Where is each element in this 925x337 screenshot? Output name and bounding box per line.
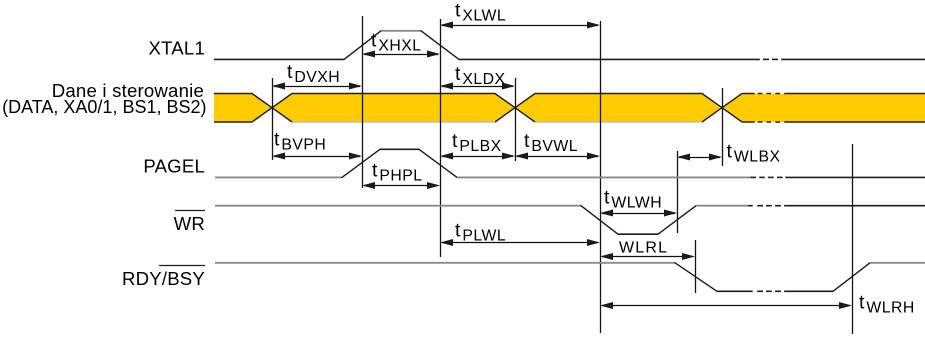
signal name WR with overline — [174, 211, 205, 234]
arrow tPLWL — [440, 239, 600, 246]
svg-text:PAGEL: PAGEL — [143, 156, 205, 177]
XTAL1 wire low right with dash break — [459, 58, 925, 60]
arrow tWLWH — [600, 210, 677, 217]
arrow tBVPH — [272, 153, 362, 160]
PAGEL falling edge — [419, 149, 457, 177]
bus outline segment 4 tapers — [722, 94, 742, 123]
svg-text:tWLBX: tWLBX — [727, 141, 781, 166]
svg-text:WLRL: WLRL — [619, 240, 668, 257]
svg-text:tBVPH: tBVPH — [274, 129, 326, 154]
svg-text:tPLBX: tPLBX — [452, 130, 502, 155]
bus bottom border solid-dash-solid — [742, 121, 925, 123]
svg-text:tWLRH: tWLRH — [859, 292, 915, 317]
bus outline segment 2 — [272, 94, 515, 123]
PAGEL rising edge — [342, 149, 380, 177]
signal name (DATA, XA0/1, BS1, BS2) — [2, 97, 206, 117]
arrow tXLWL — [440, 22, 600, 29]
arrow tWLBX — [677, 154, 722, 161]
WR wire high left — [215, 205, 581, 207]
arrow tPHPL — [362, 182, 440, 189]
label tWLBX — [727, 141, 781, 166]
XTAL1 rising edge — [344, 31, 381, 60]
guide line at x=362 — [362, 16, 364, 188]
arrow tWLRH — [600, 302, 852, 309]
arrow tDVXH — [272, 83, 362, 90]
guide line at x=600 — [600, 21, 602, 333]
label WLRL — [619, 240, 668, 257]
bus fill segment 4 — [722, 94, 925, 123]
label tXHXL — [371, 30, 422, 55]
arrow tPLBX — [440, 153, 515, 160]
guide line at x=440 — [440, 19, 442, 257]
PAGEL wire low left — [215, 176, 342, 178]
tick at x=677 — [677, 151, 679, 233]
arrow tXLDX — [440, 83, 515, 90]
svg-text:XTAL1: XTAL1 — [149, 38, 205, 59]
label tDVXH — [287, 61, 340, 86]
label tBVPH — [274, 129, 326, 154]
tick at x=515 — [515, 78, 517, 161]
signal name RDY/BSY with overline on BSY — [122, 266, 205, 290]
svg-text:RDY/BSY: RDY/BSY — [122, 268, 205, 289]
label tWLRH — [859, 292, 915, 317]
signal name XTAL1 — [149, 38, 205, 59]
svg-text:tPHPL: tPHPL — [372, 160, 423, 185]
label tBVWL — [524, 130, 578, 155]
arrow tXHXL — [362, 51, 440, 58]
bus top border solid-dash-solid — [742, 93, 925, 95]
XTAL1 falling edge — [421, 31, 459, 60]
RDY/BSY rising edge — [833, 263, 870, 292]
label tPLWL — [455, 220, 506, 245]
svg-text:WR: WR — [174, 213, 205, 234]
svg-text:tDVXH: tDVXH — [287, 61, 340, 86]
tick at x=695 — [695, 240, 697, 293]
bus fill segment 2 — [272, 94, 515, 123]
RDY/BSY wire high left — [215, 262, 675, 264]
XTAL1 wire low left — [214, 58, 344, 60]
bus outline segment 1 — [214, 94, 272, 123]
PAGEL wire low right with dash break — [457, 176, 925, 178]
bus outline segment 3 — [515, 94, 722, 123]
signal name Dane i sterowanie — [52, 80, 204, 101]
tick at x=722 — [722, 88, 724, 166]
bus fill segment 3 — [515, 94, 722, 123]
svg-text:tPLWL: tPLWL — [455, 220, 506, 245]
label tXLWL — [455, 0, 506, 25]
WR rising edge — [658, 206, 696, 235]
PAGEL wire high — [380, 148, 419, 150]
signal name PAGEL — [143, 156, 205, 177]
RDY/BSY wire low with dash break — [717, 290, 833, 292]
XTAL1 wire high — [381, 30, 421, 32]
WR wire high right with dash break — [696, 205, 925, 207]
svg-text:tXLDX: tXLDX — [455, 63, 506, 88]
RDY/BSY wire high right — [870, 262, 925, 264]
label tPHPL — [372, 160, 423, 185]
svg-text:tXLWL: tXLWL — [455, 0, 506, 25]
arrow tBVWL — [515, 153, 600, 160]
svg-text:tBVWL: tBVWL — [524, 130, 578, 155]
WR wire low — [618, 233, 658, 235]
guide line at x=852 — [852, 144, 854, 334]
tick at x=272 — [272, 78, 274, 160]
arrow WLRL — [600, 253, 695, 260]
svg-text:(DATA, XA0/1, BS1, BS2): (DATA, XA0/1, BS1, BS2) — [2, 97, 206, 117]
label tWLWH — [604, 187, 662, 212]
WR falling edge — [581, 206, 618, 235]
RDY/BSY falling edge — [675, 263, 717, 292]
label tPLBX — [452, 130, 502, 155]
svg-text:tWLWH: tWLWH — [604, 187, 662, 212]
label tXLDX — [455, 63, 506, 88]
bus fill segment 1 (yellow) — [214, 94, 272, 123]
